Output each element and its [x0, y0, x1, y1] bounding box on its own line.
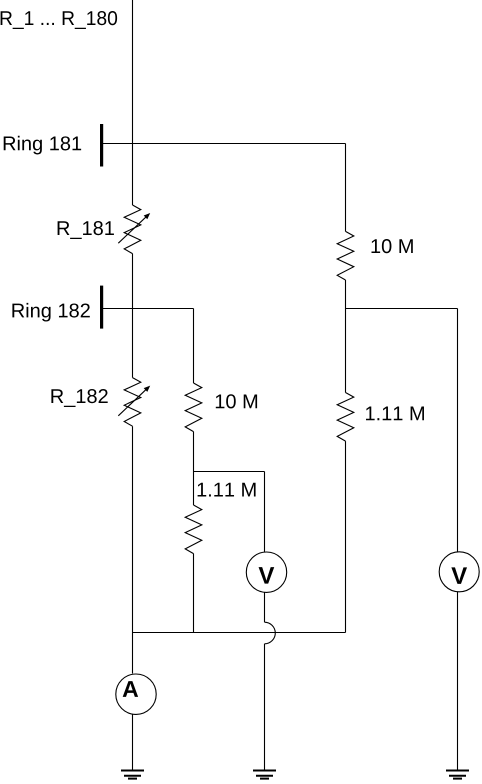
resistor 1.11M middle zigzag [185, 505, 202, 554]
label R_181 [58, 221, 114, 239]
wire: middle branch vertical between 10M and 1.11M [193, 432, 195, 505]
label 1.11 M middle [198, 483, 256, 497]
ground middle [253, 771, 276, 779]
wire: main vertical from top edge down to R_181 [132, 0, 134, 205]
voltmeter V2 circle [439, 552, 479, 592]
wire: below ammeter to left ground [132, 714, 134, 770]
wire: node horizontal to middle voltmeter branch [194, 471, 265, 473]
ring electrode Ring 182 bar [100, 286, 103, 329]
wire: right branch vertical from Ring 181 wire to 10M [345, 144, 347, 232]
voltmeter V2 letter [451, 567, 467, 584]
label R_1 ... R_180 [1, 11, 118, 29]
wire: below voltmeter V2 to right ground [457, 592, 459, 771]
wire: Ring 182 horizontal to middle branch [103, 308, 194, 310]
wire: middle branch vertical from Ring 182 wire to 10M [193, 309, 195, 384]
label Ring 181 [4, 136, 81, 155]
label R_182 [51, 389, 107, 407]
resistor 10M right zigzag [337, 231, 354, 280]
wire: below voltmeter V1 to hop [264, 593, 266, 623]
resistor 10M middle zigzag [185, 383, 202, 432]
ground left [121, 771, 144, 779]
ammeter A1 circle [116, 674, 156, 714]
label Ring 182 [12, 303, 89, 322]
wire: below hop to middle ground [264, 644, 266, 771]
ammeter A1 letter [123, 681, 138, 697]
wire: right voltmeter branch vertical [457, 309, 459, 552]
wire: bottom horizontal [133, 632, 346, 634]
wire: vertical between R_181 and R_182 [132, 254, 134, 378]
wire: left vertical below R_182 down to ammeter [132, 426, 134, 673]
wire: middle voltmeter branch vertical [264, 472, 266, 552]
ring electrode Ring 181 bar [100, 124, 103, 167]
wire: middle branch vertical to bottom wire [193, 554, 195, 633]
resistor R_182 zigzag [124, 378, 141, 427]
voltmeter V1 letter [259, 567, 275, 584]
wire: right branch vertical to bottom wire [345, 441, 347, 632]
wire: node horizontal to right voltmeter branch [346, 308, 458, 310]
label 10 M right [372, 239, 413, 253]
label 10 M middle [216, 394, 257, 408]
voltmeter V1 circle [246, 552, 286, 592]
wire hop over bottom wire [265, 622, 276, 644]
resistor R_182 variable arrow [118, 387, 149, 416]
wire: right branch vertical between 10M and 1.11M [345, 280, 347, 393]
label 1.11 M right [366, 407, 424, 421]
ground right [446, 771, 469, 779]
resistor R_181 variable arrow [118, 214, 149, 243]
wire: Ring 181 horizontal to right branch [103, 143, 346, 145]
resistor R_181 zigzag [124, 205, 141, 254]
resistor 1.11M right zigzag [337, 393, 354, 442]
